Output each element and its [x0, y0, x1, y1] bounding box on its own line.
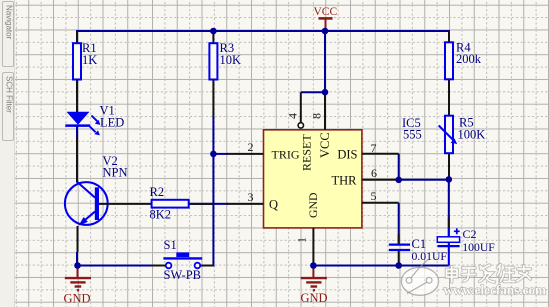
- watermark text: [447, 265, 531, 283]
- wire pin5 drop to C1: [398, 203, 400, 244]
- svg-text:3: 3: [248, 190, 254, 204]
- pin 4 RESET (active low bubble): [286, 92, 314, 171]
- pin 6 THR: [332, 166, 399, 187]
- svg-text:SW-PB: SW-PB: [164, 268, 202, 282]
- junction TRIG-R3: [210, 151, 217, 158]
- resistor R3: [209, 31, 241, 117]
- svg-text:THR: THR: [332, 173, 358, 187]
- svg-text:2: 2: [248, 140, 254, 154]
- svg-text:C2: C2: [463, 227, 477, 241]
- resistor R1: [73, 31, 97, 113]
- switch S1 SW-PB: [152, 238, 214, 282]
- svg-text:LED: LED: [100, 116, 124, 130]
- wire VCC stem down to pin8: [324, 30, 326, 93]
- svg-text:NPN: NPN: [103, 165, 128, 179]
- svg-text:200k: 200k: [456, 52, 482, 66]
- svg-text:VCC: VCC: [314, 6, 338, 18]
- svg-text:RESET: RESET: [300, 134, 314, 171]
- wire R5 to C2 column: [448, 179, 450, 237]
- pin 8 VCC: [310, 92, 332, 158]
- svg-text:GND: GND: [64, 291, 91, 305]
- wire emitter stub: [76, 252, 78, 266]
- wire R3 column down to S1: [199, 117, 213, 266]
- svg-text:5: 5: [371, 189, 377, 203]
- wire pin4 to pin8 link: [301, 91, 325, 93]
- pin 2 TRIG: [227, 140, 300, 161]
- wire emitter to S1: [78, 265, 169, 267]
- wire bottom rail GND to C2: [313, 265, 448, 267]
- svg-text:Q: Q: [269, 197, 278, 211]
- junction VCC rail: [322, 28, 329, 35]
- junction THR-R5: [446, 176, 453, 183]
- resistor R4: [445, 31, 482, 116]
- junction C1-rail: [395, 262, 402, 269]
- junction IC GND-rail: [310, 262, 317, 269]
- svg-text:555: 555: [403, 128, 422, 142]
- svg-text:www.elecfans.com: www.elecfans.com: [444, 283, 547, 298]
- svg-text:8: 8: [310, 113, 324, 119]
- wire DIS drop: [398, 154, 400, 180]
- svg-text:R2: R2: [150, 185, 165, 199]
- wire top VCC rail: [76, 30, 450, 32]
- svg-text:C1: C1: [412, 237, 427, 251]
- resistor R2: [99, 185, 213, 222]
- op IC5 555 timer body: [264, 116, 422, 228]
- junction emitter-S1-GND: [74, 262, 81, 269]
- svg-text:6: 6: [371, 166, 377, 180]
- tab SCH Filter: [2, 72, 14, 141]
- watermark logo circle: [401, 259, 438, 295]
- pin 5 CV: [362, 189, 399, 203]
- capacitor C1: [389, 234, 448, 266]
- junction DIS-THR: [395, 177, 402, 184]
- pin 7 DIS: [337, 141, 398, 161]
- wire TRIG link: [213, 153, 228, 155]
- wire Q to R2 link: [189, 203, 228, 205]
- ground GND (under IC): [301, 266, 328, 305]
- wire LED cathode stub: [76, 125, 78, 137]
- pin 1 GND: [295, 192, 321, 266]
- LED V1: [65, 104, 124, 136]
- potentiometer R5: [439, 116, 486, 180]
- ground GND (left): [64, 266, 92, 306]
- svg-text:4: 4: [286, 113, 300, 119]
- wire THR run: [399, 179, 449, 181]
- svg-text:7: 7: [371, 141, 377, 155]
- tab Navigator: [2, 1, 14, 67]
- svg-text:DIS: DIS: [337, 147, 357, 161]
- svg-text:100K: 100K: [458, 127, 486, 141]
- svg-text:10K: 10K: [220, 53, 242, 67]
- svg-text:S1: S1: [164, 238, 177, 252]
- svg-text:VCC: VCC: [318, 132, 332, 158]
- transistor V2 NPN: [65, 137, 128, 252]
- svg-text:GND: GND: [306, 192, 320, 218]
- svg-text:TRIG: TRIG: [272, 147, 300, 161]
- pin 3 Q: [227, 190, 278, 211]
- junction pin4-pin8: [322, 89, 329, 96]
- junction R3 top rail: [210, 28, 217, 35]
- svg-text:1K: 1K: [82, 53, 97, 67]
- sidebar panel: [0, 0, 15, 307]
- capacitor C2 (polarized): [437, 217, 495, 266]
- svg-text:0.01UF: 0.01UF: [412, 250, 448, 263]
- svg-text:GND: GND: [301, 291, 328, 305]
- svg-text:1: 1: [295, 237, 309, 243]
- svg-text:8K2: 8K2: [150, 208, 172, 222]
- svg-text:100UF: 100UF: [462, 241, 495, 254]
- power VCC: [314, 6, 338, 31]
